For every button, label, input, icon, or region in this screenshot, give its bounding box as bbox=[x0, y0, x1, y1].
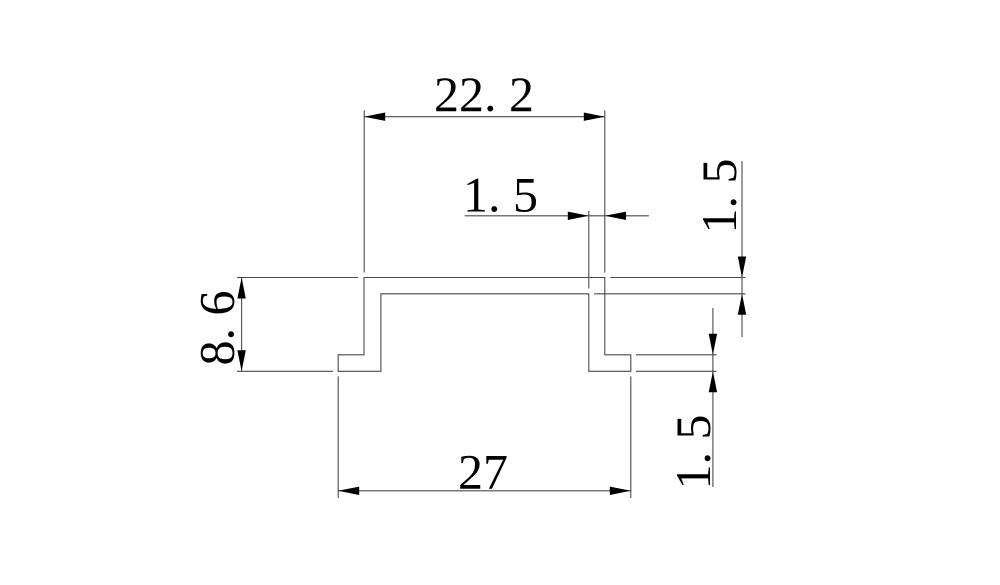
extension line 8.6 bottom bbox=[237, 370, 333, 372]
extension line top right y=277.5 bbox=[611, 277, 746, 279]
extension line 8.6 top bbox=[237, 277, 358, 279]
dimension line 22.2 bbox=[364, 116, 605, 118]
extension line 27 right bbox=[630, 376, 632, 498]
svg-text:1. 5: 1. 5 bbox=[665, 415, 721, 490]
profile outline (hat channel cross-section) bbox=[338, 278, 631, 372]
arrowhead foot 1.5 top (points down) bbox=[709, 334, 717, 355]
arrowhead 1.5 wall right (points left) bbox=[605, 212, 626, 220]
svg-text:1. 5: 1. 5 bbox=[463, 167, 538, 223]
arrowhead 22.2 right bbox=[584, 113, 605, 121]
svg-text:8. 6: 8. 6 bbox=[189, 291, 245, 366]
svg-text:27: 27 bbox=[458, 444, 508, 500]
arrowhead 22.2 left bbox=[364, 113, 385, 121]
extension line for 1.5 wall dim bbox=[588, 211, 590, 289]
arrowhead 8.6 top (points up) bbox=[237, 278, 245, 299]
extension line foot 1.5 bottom bbox=[636, 370, 717, 372]
arrowhead 27 left bbox=[338, 487, 359, 495]
arrowhead foot 1.5 bottom (points up) bbox=[709, 371, 717, 392]
extension line top right y=293.8 bbox=[594, 293, 746, 295]
arrowhead right 1.5 top (points down) bbox=[738, 257, 746, 278]
extension line left of 22.2 dim bbox=[363, 111, 365, 273]
arrowhead 8.6 bottom (points down) bbox=[237, 350, 245, 371]
dimension line 27 bbox=[338, 490, 631, 492]
extension line 27 left bbox=[337, 376, 339, 498]
svg-text:22. 2: 22. 2 bbox=[434, 66, 534, 122]
dimension/leader line 1.5 wall bbox=[465, 215, 649, 217]
svg-text:1. 5: 1. 5 bbox=[691, 159, 747, 234]
extension line foot 1.5 top bbox=[636, 354, 717, 356]
dimension line vertical right 1.5 bbox=[741, 161, 743, 337]
arrowhead right 1.5 bottom (points up) bbox=[738, 294, 746, 315]
dimension line vertical foot 1.5 bbox=[712, 308, 714, 487]
extension line right of 22.2 dim bbox=[604, 111, 606, 273]
arrowhead 27 right bbox=[610, 487, 631, 495]
arrowhead 1.5 wall left (points right) bbox=[568, 212, 589, 220]
dimension line 8.6 bbox=[241, 278, 243, 372]
